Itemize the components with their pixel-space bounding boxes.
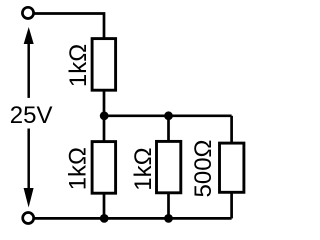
arrowhead up — [24, 27, 34, 44]
wire top horizontal from terminal to R1 — [34, 14, 104, 40]
svg-text:1kΩ: 1kΩ — [65, 44, 92, 87]
wire R3 bottom to bottom bus — [167, 193, 170, 219]
wire middle bus down to R2 — [103, 116, 106, 142]
resistor R1 1kΩ (top) — [92, 39, 116, 91]
terminal top-left — [22, 7, 33, 18]
wire R1 bottom to middle node — [103, 90, 106, 116]
terminal bottom-left — [23, 213, 34, 224]
svg-text:1kΩ: 1kΩ — [130, 147, 157, 190]
arrowhead down — [24, 188, 34, 208]
resistor R3 1kΩ (bottom middle) — [157, 141, 181, 192]
wire R4 bottom to bottom bus corner — [230, 192, 233, 218]
resistor R4 500Ω (bottom right) — [220, 143, 244, 192]
node junction middle-center — [164, 111, 173, 120]
voltage arrow shaft upper segment — [27, 40, 30, 98]
voltage arrow shaft lower segment — [27, 129, 30, 190]
node junction bottom-left — [100, 214, 109, 223]
node junction middle-left — [100, 111, 109, 120]
wire middle bus corner down to R4 — [230, 116, 233, 144]
svg-text:500Ω: 500Ω — [190, 140, 217, 198]
svg-text:25V: 25V — [10, 102, 53, 129]
resistor R2 1kΩ (bottom left) — [92, 142, 116, 194]
wire bottom horizontal bus — [34, 217, 232, 220]
node junction bottom-center — [164, 214, 173, 223]
wire R2 bottom to bottom bus — [103, 193, 106, 219]
wire middle horizontal bus — [104, 114, 232, 117]
svg-text:1kΩ: 1kΩ — [65, 147, 92, 190]
wire middle bus down to R3 — [167, 116, 170, 142]
